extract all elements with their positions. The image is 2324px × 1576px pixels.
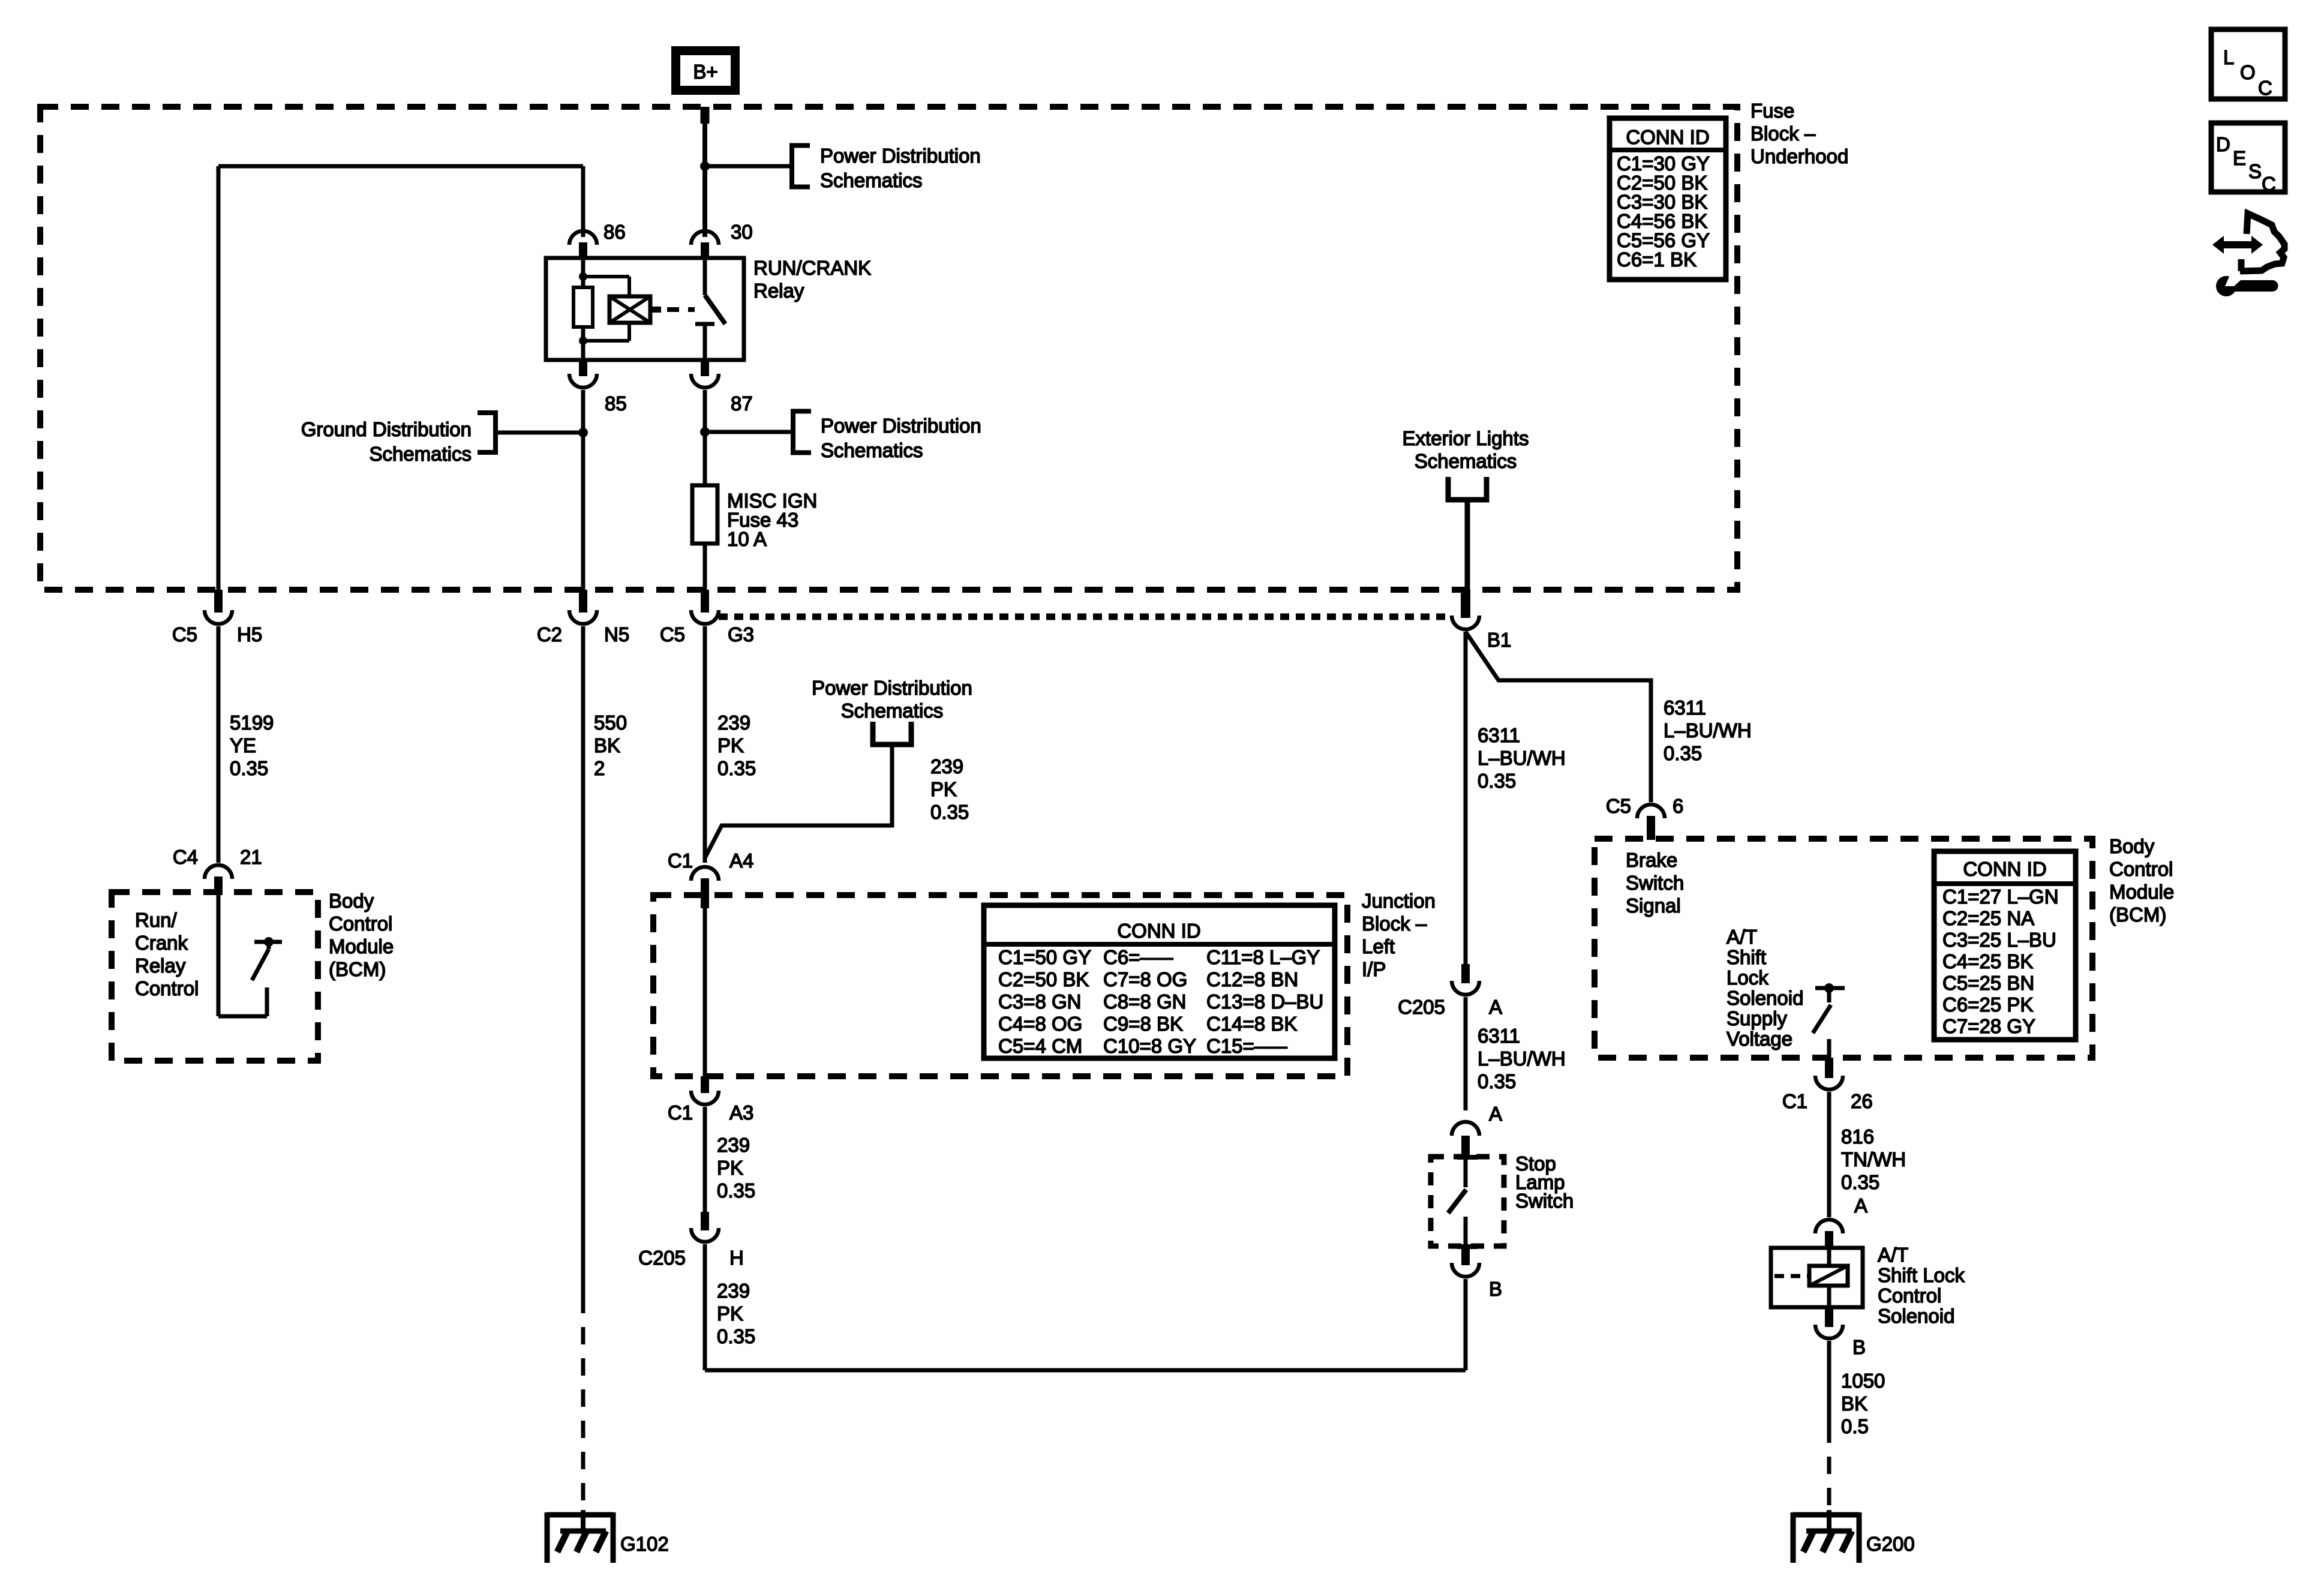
svg-text:C5=4 CM: C5=4 CM [998, 1035, 1082, 1057]
svg-text:5199: 5199 [230, 712, 274, 734]
svg-text:Schematics: Schematics [1415, 450, 1517, 472]
svg-text:D: D [2216, 133, 2230, 155]
svg-text:C7=8 OG: C7=8 OG [1103, 968, 1187, 990]
svg-text:A: A [1854, 1194, 1867, 1217]
svg-text:C5=25 BN: C5=25 BN [1942, 972, 2034, 994]
svg-text:Control: Control [2109, 858, 2173, 880]
svg-text:Lock: Lock [1727, 966, 1768, 989]
svg-text:H: H [729, 1247, 744, 1269]
svg-text:L: L [2223, 46, 2234, 68]
svg-text:Module: Module [2109, 881, 2174, 903]
svg-text:86: 86 [603, 221, 626, 243]
svg-text:C1: C1 [668, 1101, 693, 1124]
svg-text:BK: BK [1841, 1392, 1867, 1415]
svg-text:6311: 6311 [1664, 697, 1706, 719]
svg-text:Power Distribution: Power Distribution [821, 415, 981, 437]
svg-text:10 A: 10 A [727, 528, 767, 550]
svg-text:Run/: Run/ [135, 909, 178, 931]
svg-text:C2: C2 [537, 623, 562, 646]
svg-text:C12=8 BN: C12=8 BN [1206, 968, 1298, 990]
svg-text:87: 87 [731, 392, 753, 415]
svg-text:B1: B1 [1487, 629, 1511, 651]
svg-text:N5: N5 [604, 623, 629, 646]
svg-text:Fuse: Fuse [1750, 100, 1794, 122]
svg-text:Exterior Lights: Exterior Lights [1403, 427, 1529, 449]
svg-text:0.35: 0.35 [1478, 1070, 1516, 1092]
svg-text:Brake: Brake [1626, 849, 1677, 871]
svg-text:C14=8 BK: C14=8 BK [1206, 1013, 1297, 1035]
svg-text:2: 2 [594, 757, 605, 779]
svg-text:Relay: Relay [753, 280, 804, 302]
svg-text:C9=8 BK: C9=8 BK [1103, 1013, 1183, 1035]
svg-text:Control: Control [135, 977, 199, 999]
svg-text:A/T: A/T [1878, 1244, 1908, 1266]
svg-text:C4: C4 [173, 846, 198, 868]
svg-text:C6=25 PK: C6=25 PK [1942, 993, 2033, 1016]
svg-text:G102: G102 [620, 1533, 669, 1555]
svg-text:PK: PK [717, 1302, 743, 1325]
svg-text:0.35: 0.35 [1664, 742, 1702, 764]
svg-text:CONN ID: CONN ID [1963, 858, 2046, 880]
svg-text:550: 550 [594, 712, 627, 734]
svg-text:A: A [1489, 996, 1502, 1018]
svg-text:26: 26 [1851, 1090, 1873, 1112]
svg-text:85: 85 [605, 392, 627, 415]
svg-text:I/P: I/P [1362, 958, 1386, 980]
svg-text:C2=25 NA: C2=25 NA [1942, 907, 2034, 929]
svg-text:0.5: 0.5 [1841, 1415, 1869, 1437]
svg-text:Underhood: Underhood [1750, 145, 1848, 167]
svg-text:C6=–––: C6=––– [1103, 946, 1173, 968]
svg-text:816: 816 [1841, 1125, 1874, 1148]
svg-text:0.35: 0.35 [930, 801, 969, 823]
svg-text:C205: C205 [1398, 996, 1445, 1018]
svg-text:B+: B+ [693, 61, 717, 83]
svg-text:C2=50 BK: C2=50 BK [998, 968, 1089, 990]
svg-text:0.35: 0.35 [1841, 1171, 1879, 1193]
svg-text:Control: Control [329, 912, 392, 935]
svg-text:Solenoid: Solenoid [1878, 1305, 1954, 1327]
svg-text:C4=8 OG: C4=8 OG [998, 1013, 1082, 1035]
svg-text:PK: PK [717, 1157, 743, 1179]
svg-text:Body: Body [329, 890, 374, 912]
svg-text:BK: BK [594, 734, 620, 757]
svg-text:1050: 1050 [1841, 1370, 1885, 1392]
svg-text:Switch: Switch [1626, 872, 1684, 894]
svg-text:Schematics: Schematics [841, 700, 944, 722]
svg-text:B: B [1489, 1278, 1502, 1300]
svg-text:Schematics: Schematics [369, 443, 472, 465]
svg-text:Voltage: Voltage [1727, 1028, 1792, 1050]
svg-text:C6=1 BK: C6=1 BK [1617, 248, 1697, 271]
svg-text:C: C [2262, 173, 2276, 195]
svg-text:L–BU/WH: L–BU/WH [1478, 1047, 1566, 1070]
svg-text:RUN/CRANK: RUN/CRANK [753, 257, 871, 279]
svg-text:6: 6 [1673, 795, 1683, 817]
svg-text:TN/WH: TN/WH [1841, 1148, 1906, 1170]
svg-text:B: B [1852, 1336, 1866, 1358]
svg-text:Switch: Switch [1515, 1190, 1574, 1212]
svg-text:C1=27 L–GN: C1=27 L–GN [1942, 885, 2059, 908]
svg-text:C15=–––: C15=––– [1206, 1035, 1288, 1057]
svg-text:C5: C5 [172, 623, 197, 646]
svg-text:O: O [2240, 61, 2256, 83]
svg-text:Crank: Crank [135, 932, 188, 954]
svg-text:C: C [2258, 77, 2272, 99]
svg-text:0.35: 0.35 [717, 1325, 755, 1347]
svg-text:A: A [1489, 1103, 1502, 1125]
svg-text:0.35: 0.35 [230, 757, 268, 779]
svg-text:Ground Distribution: Ground Distribution [301, 418, 472, 440]
svg-text:C8=8 GN: C8=8 GN [1103, 990, 1186, 1013]
svg-text:Solenoid: Solenoid [1727, 987, 1803, 1009]
svg-text:Schematics: Schematics [820, 169, 923, 191]
svg-text:L–BU/WH: L–BU/WH [1664, 719, 1752, 742]
svg-text:PK: PK [717, 734, 744, 757]
svg-text:0.35: 0.35 [717, 1179, 755, 1202]
svg-text:Power Distribution: Power Distribution [820, 145, 981, 167]
svg-text:21: 21 [240, 846, 262, 868]
svg-text:C11=8 L–GY: C11=8 L–GY [1206, 946, 1320, 968]
svg-text:G3: G3 [728, 623, 754, 646]
svg-text:S: S [2248, 160, 2262, 182]
svg-text:Module: Module [329, 935, 394, 957]
svg-text:C13=8 D–BU: C13=8 D–BU [1206, 990, 1323, 1013]
svg-text:C5: C5 [660, 623, 685, 646]
svg-text:(BCM): (BCM) [2109, 903, 2166, 926]
svg-text:0.35: 0.35 [1478, 770, 1516, 792]
svg-text:L–BU/WH: L–BU/WH [1478, 747, 1566, 769]
svg-text:Left: Left [1362, 935, 1395, 957]
svg-text:6311: 6311 [1478, 1025, 1520, 1047]
svg-text:C4=25 BK: C4=25 BK [1942, 950, 2033, 972]
svg-text:C205: C205 [638, 1247, 686, 1269]
svg-text:C7=28 GY: C7=28 GY [1942, 1015, 2035, 1037]
svg-text:A4: A4 [729, 849, 753, 872]
svg-text:Relay: Relay [135, 954, 186, 977]
svg-text:C5: C5 [1606, 795, 1631, 817]
svg-text:Schematics: Schematics [821, 439, 923, 461]
svg-text:PK: PK [930, 778, 957, 800]
svg-text:Block –: Block – [1750, 122, 1816, 145]
svg-text:(BCM): (BCM) [329, 958, 386, 980]
svg-text:G200: G200 [1866, 1533, 1915, 1555]
svg-text:C1: C1 [1782, 1090, 1807, 1112]
svg-text:C1: C1 [668, 849, 693, 872]
svg-text:C1=50 GY: C1=50 GY [998, 946, 1091, 968]
svg-text:Body: Body [2109, 835, 2155, 857]
svg-text:E: E [2233, 147, 2246, 169]
svg-text:H5: H5 [237, 623, 262, 646]
svg-text:239: 239 [717, 1280, 750, 1302]
svg-text:239: 239 [930, 755, 963, 778]
svg-text:239: 239 [717, 1134, 750, 1156]
svg-text:Shift: Shift [1727, 946, 1766, 968]
svg-text:CONN ID: CONN ID [1626, 126, 1709, 148]
svg-text:Power Distribution: Power Distribution [812, 677, 972, 699]
svg-text:6311: 6311 [1478, 724, 1520, 746]
svg-text:C10=8 GY: C10=8 GY [1103, 1035, 1196, 1057]
svg-text:YE: YE [230, 734, 256, 757]
svg-text:Block –: Block – [1362, 912, 1427, 935]
svg-text:Junction: Junction [1362, 890, 1436, 912]
svg-text:Control: Control [1878, 1284, 1941, 1307]
svg-text:0.35: 0.35 [717, 757, 756, 779]
svg-text:239: 239 [717, 712, 750, 734]
svg-text:A3: A3 [729, 1101, 753, 1124]
svg-text:A/T: A/T [1727, 926, 1757, 948]
svg-text:Shift Lock: Shift Lock [1878, 1264, 1965, 1286]
svg-text:30: 30 [731, 221, 753, 243]
svg-text:C3=25 L–BU: C3=25 L–BU [1942, 929, 2056, 951]
svg-text:C3=8 GN: C3=8 GN [998, 990, 1081, 1013]
svg-text:Signal: Signal [1626, 894, 1681, 917]
svg-text:Supply: Supply [1727, 1007, 1787, 1029]
svg-text:CONN ID: CONN ID [1117, 920, 1200, 942]
